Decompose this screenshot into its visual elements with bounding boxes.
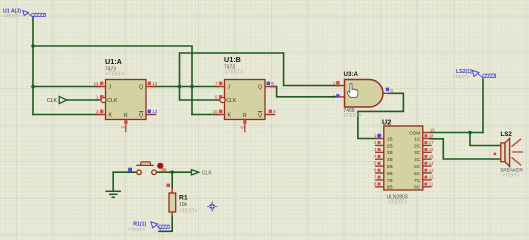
svg-text:<TEXT>: <TEXT> bbox=[106, 72, 125, 78]
svg-text:U1:A: U1:A bbox=[105, 57, 122, 66]
label U3:A title bbox=[344, 71, 363, 119]
gate pin 1 bbox=[333, 81, 340, 86]
U2 pin 4 bbox=[374, 154, 381, 159]
mouse hand cursor bbox=[347, 84, 358, 98]
svg-text:CLK: CLK bbox=[226, 98, 237, 104]
svg-text:17: 17 bbox=[429, 140, 434, 145]
svg-text:R: R bbox=[243, 113, 247, 119]
wire: U1:B Q to AND gate input 2 bbox=[271, 87, 338, 97]
svg-text:J: J bbox=[109, 85, 112, 91]
junction: COM/speaker node bbox=[468, 131, 472, 135]
svg-text:14: 14 bbox=[94, 81, 99, 86]
svg-text:2B: 2B bbox=[387, 143, 393, 149]
pin 14 (J) bbox=[94, 81, 104, 86]
wire: COM junction down to speaker top pin bbox=[470, 133, 501, 146]
pin 2 (R) bbox=[120, 120, 127, 128]
pin 8 (Qbar) bbox=[269, 109, 277, 114]
U2 pin 13 bbox=[424, 168, 434, 173]
U2 pin 15 bbox=[424, 154, 434, 159]
svg-text:3C: 3C bbox=[414, 150, 421, 156]
U2 pin 6 bbox=[374, 168, 381, 173]
flip-flop U1:A body bbox=[97, 80, 156, 132]
pin 13 (Qbar) bbox=[148, 109, 158, 114]
svg-text:<TEXT>: <TEXT> bbox=[389, 200, 408, 206]
U2 pin 17 bbox=[424, 140, 434, 145]
svg-text:U2: U2 bbox=[382, 118, 391, 127]
U2 pin 3 bbox=[374, 147, 381, 152]
gate pin 3 output bbox=[386, 88, 394, 93]
resistor R1 bbox=[169, 193, 198, 215]
pin 7 (J) bbox=[215, 81, 222, 86]
svg-text:6C: 6C bbox=[414, 171, 421, 177]
output terminal CLK (right of button) bbox=[191, 170, 212, 177]
wire: Q1 branch down to U1:B CLK pin bbox=[180, 87, 218, 101]
svg-text:3B: 3B bbox=[387, 150, 393, 156]
terminal LS2(1) top-right bbox=[453, 69, 496, 79]
svg-text:2: 2 bbox=[120, 126, 125, 129]
svg-text:J: J bbox=[228, 85, 231, 91]
svg-text:Q: Q bbox=[139, 85, 143, 91]
wire: R1 bottom to R1(1) terminal bbox=[159, 212, 172, 231]
U2 pin 18 bbox=[424, 133, 434, 138]
wire: AND gate output to U2 pin 1B bbox=[358, 93, 404, 138]
svg-text:<TEXT>: <TEXT> bbox=[225, 70, 244, 76]
svg-text:K: K bbox=[109, 113, 113, 119]
wire: U2 COM to junction bbox=[430, 132, 483, 134]
wire: to U1:A pin K bbox=[33, 114, 100, 116]
ground bbox=[106, 191, 120, 197]
wire: button row to CLK output terminal bbox=[113, 171, 136, 173]
svg-text:16: 16 bbox=[429, 147, 434, 152]
svg-text:K: K bbox=[228, 113, 232, 119]
svg-text:7C: 7C bbox=[414, 178, 421, 184]
red state square above R1 bbox=[167, 184, 171, 188]
svg-text:<TEXT>: <TEXT> bbox=[344, 113, 363, 119]
junction: terminal line top branch bbox=[31, 44, 35, 48]
svg-text:18: 18 bbox=[429, 133, 434, 138]
svg-text:11: 11 bbox=[429, 182, 434, 187]
label U1:A title bbox=[105, 57, 124, 78]
speaker LS2 bbox=[500, 131, 523, 178]
wire: button to CLK arrow bbox=[157, 171, 191, 173]
U2 pin 14 bbox=[424, 161, 434, 166]
svg-text:13: 13 bbox=[429, 168, 434, 173]
U2 pin 1 (1B) bbox=[374, 133, 381, 138]
wire: U1:A Q to U1:B J row bbox=[152, 86, 218, 88]
U2 pin 8 bbox=[374, 181, 381, 186]
svg-text:<TEXT>: <TEXT> bbox=[179, 209, 198, 215]
U2 pin 11 bbox=[424, 182, 433, 187]
svg-text:7B: 7B bbox=[387, 178, 393, 184]
wire: to U1:A pin J bbox=[33, 86, 100, 88]
wire: CLK input terminal to U1:A CLK pin bbox=[67, 99, 99, 101]
blue state square at button bbox=[128, 168, 132, 172]
IC U2 ULN2803 body bbox=[376, 126, 431, 191]
svg-text:COM: COM bbox=[409, 130, 420, 136]
junction: button/R1 node bbox=[170, 170, 174, 174]
svg-text:15: 15 bbox=[429, 154, 434, 159]
U2 pin 12 bbox=[424, 175, 434, 180]
svg-text:5C: 5C bbox=[414, 164, 421, 170]
U2 pin 10 (COM) bbox=[430, 127, 435, 132]
svg-text:10k: 10k bbox=[179, 202, 188, 208]
svg-text:5B: 5B bbox=[387, 164, 393, 170]
svg-text:4B: 4B bbox=[387, 157, 393, 163]
svg-text:10: 10 bbox=[213, 109, 218, 114]
svg-text:<TEXT>: <TEXT> bbox=[502, 173, 519, 178]
pin 3 (K) bbox=[96, 109, 103, 114]
U2 pin 7 bbox=[374, 174, 381, 179]
junction: Q1 node bbox=[178, 85, 182, 89]
red state square at speaker bbox=[494, 153, 497, 156]
U2 pin 16 bbox=[424, 147, 434, 152]
junction: J/K feed at J row bbox=[190, 85, 194, 89]
svg-text:LS2: LS2 bbox=[501, 131, 513, 138]
svg-text:R1: R1 bbox=[179, 195, 188, 202]
svg-text:12: 12 bbox=[152, 81, 157, 86]
input terminal CLK (left) bbox=[47, 96, 67, 104]
pin 10 (K) bbox=[213, 109, 223, 114]
svg-text:U1:B: U1:B bbox=[224, 55, 241, 64]
svg-text:6: 6 bbox=[239, 126, 244, 129]
svg-text:<TEXT>: <TEXT> bbox=[3, 14, 20, 19]
wire: LS2(1) terminal down to COM line bbox=[482, 79, 484, 133]
svg-text:CLK: CLK bbox=[202, 170, 213, 176]
U2 pin 2 bbox=[374, 140, 381, 145]
junction: terminal line at J row bbox=[31, 85, 35, 89]
svg-text:U3:A: U3:A bbox=[344, 71, 359, 78]
svg-text:CLK: CLK bbox=[47, 98, 58, 104]
flip-flop U1:B body bbox=[216, 80, 275, 132]
svg-text:8C: 8C bbox=[414, 185, 421, 191]
wire: Q1 branch up and across to AND gate input 1 bbox=[180, 53, 339, 87]
wire: ground drop bbox=[112, 172, 114, 191]
svg-text:1B: 1B bbox=[387, 136, 393, 142]
AND gate U3:A body bbox=[336, 80, 391, 108]
pin 6 (R) bbox=[239, 120, 246, 128]
svg-text:<TEXT>: <TEXT> bbox=[453, 74, 470, 79]
svg-text:Q: Q bbox=[139, 113, 143, 119]
svg-text:10: 10 bbox=[430, 127, 435, 132]
svg-text:8B: 8B bbox=[387, 185, 393, 191]
U2 pin 5 bbox=[374, 161, 381, 166]
svg-text:6B: 6B bbox=[387, 171, 393, 177]
pin 5 (CLK) bbox=[215, 95, 222, 100]
wire: terminal U1A(J) vertical down to J/K rows bbox=[32, 17, 34, 115]
svg-text:13: 13 bbox=[152, 109, 157, 114]
svg-text:CLK: CLK bbox=[107, 98, 118, 104]
svg-text:12: 12 bbox=[429, 175, 434, 180]
pin 1 (CLK) bbox=[96, 95, 103, 100]
svg-text:R: R bbox=[124, 113, 128, 119]
push button bbox=[137, 162, 157, 175]
svg-text:2C: 2C bbox=[414, 143, 421, 149]
svg-text:Q: Q bbox=[258, 85, 262, 91]
svg-text:<TEXT>: <TEXT> bbox=[128, 227, 145, 232]
label U2 title bbox=[382, 118, 408, 206]
pin 9 (Q) bbox=[267, 81, 275, 86]
svg-text:14: 14 bbox=[429, 161, 434, 166]
wire: top feed from terminal line to U1:B J/K column bbox=[33, 46, 192, 115]
wire: U2 pin 1C to speaker bottom pin bbox=[430, 139, 501, 159]
wire: U1:B K row feed bbox=[192, 114, 218, 116]
wire: junction down to R1 top bbox=[171, 172, 173, 193]
svg-text:1C: 1C bbox=[414, 136, 421, 142]
terminal U1 A(J) top-left bbox=[3, 9, 46, 19]
pin 12 (Q) bbox=[148, 81, 158, 86]
svg-text:Q: Q bbox=[258, 113, 262, 119]
marker origin diamond bbox=[207, 202, 217, 212]
red probe blob at button bbox=[157, 163, 166, 173]
label U1:B title bbox=[224, 55, 243, 76]
terminal R1(1) bottom bbox=[128, 221, 169, 232]
svg-text:4C: 4C bbox=[414, 157, 421, 163]
gate pin 2 bbox=[333, 94, 340, 99]
